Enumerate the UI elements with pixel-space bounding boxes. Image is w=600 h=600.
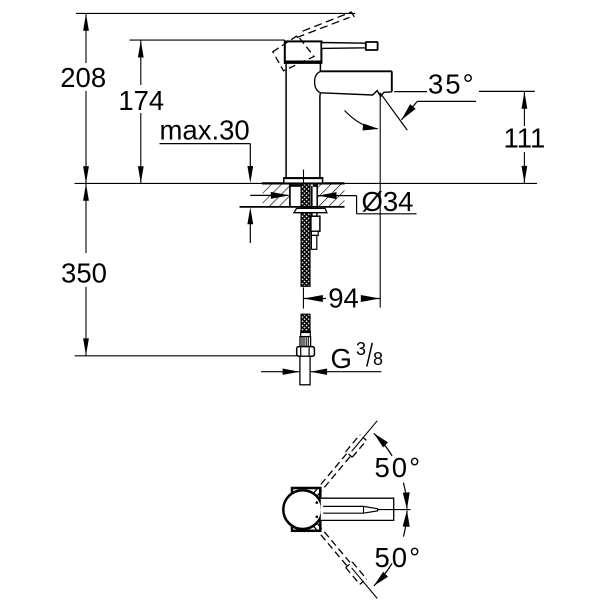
dimension 350 vertical line [83, 183, 89, 355]
hose length reference line (350 bottom) [75, 355, 297, 357]
svg-text:174: 174 [118, 85, 164, 116]
counter top surface line [75, 182, 538, 184]
plan view: dashed lever at 50 degrees (lower) [314, 523, 367, 584]
hose ferrule [301, 331, 311, 336]
raised lever (dashed) [297, 12, 356, 38]
raised handle position (dashed box) [273, 36, 314, 71]
body-spout intersection curve [315, 72, 321, 93]
dimension 174 vertical line [138, 40, 144, 183]
fixing block neck [311, 231, 318, 235]
plan view: 50 degree extension line (lower) [352, 568, 378, 599]
dimension 94 line with outward arrows [304, 295, 380, 302]
svg-text:3: 3 [356, 339, 366, 359]
cartridge box (handle base) [284, 41, 322, 63]
extension line: total-height reference (208 top) [76, 12, 355, 14]
mounting washer/nut under deck [294, 208, 327, 212]
stub tube upper left wall [311, 186, 313, 216]
plan view: cartridge box outline [292, 488, 320, 531]
faucet centre line [303, 170, 305, 184]
svg-text:50°: 50° [375, 542, 423, 573]
counter deck hatching right of hole [318, 184, 345, 206]
svg-text:35°: 35° [428, 69, 476, 100]
dimension text G 3/8 [331, 339, 384, 374]
plan view: 50 degree extension line (upper) [352, 421, 378, 452]
svg-text:max.30: max.30 [160, 115, 250, 146]
faucet body right edge upper [319, 63, 321, 71]
counter deck section bottom edge [240, 206, 345, 208]
plan view: lever axis line [378, 509, 411, 511]
dimension 208 vertical line [83, 13, 89, 183]
plan view: lever envelope [321, 498, 394, 520]
plan view: 50 degree arc (lower) [374, 510, 410, 586]
lever knob [366, 42, 378, 50]
94 dimension extension line (outlet axis) [379, 93, 381, 308]
faucet body right edge lower [319, 93, 322, 178]
base flange [283, 178, 323, 183]
threaded shank / braided hose upper segment [301, 184, 310, 286]
mounting hole left wall [289, 183, 291, 207]
faucet shank shoulder (left, in hole) [290, 185, 301, 187]
svg-text:G: G [331, 343, 352, 374]
hex union nut [297, 347, 315, 357]
stub tube upper right wall [316, 207, 318, 216]
fixing block on stud [311, 216, 320, 231]
dimension 111 vertical line [522, 91, 528, 183]
counter deck hatching left of hole [263, 184, 290, 206]
water stream 35deg line [380, 93, 407, 130]
spout top edge [320, 70, 392, 72]
35-degree reference line at outlet [394, 90, 535, 92]
plan view: faucet body circle [283, 490, 322, 529]
svg-text:Ø34: Ø34 [362, 186, 414, 217]
faucet shank shoulder (right, in hole) [313, 185, 317, 187]
svg-text:208: 208 [60, 62, 106, 93]
extension line: body-height reference (174 top) [130, 39, 285, 41]
svg-text:94: 94 [328, 283, 359, 314]
svg-text:111: 111 [503, 122, 545, 153]
plan view: dashed lever at 50 degrees (upper) [314, 435, 367, 496]
mounting hole right wall [316, 184, 318, 207]
35deg leader with arrow [402, 101, 477, 119]
plan view: lever shaft [323, 506, 377, 513]
G 3/8 dimension arrows [261, 369, 381, 375]
G3/8 threaded pipe end [300, 356, 310, 385]
braided hose lower segment [301, 314, 310, 331]
knurled connector [300, 337, 311, 347]
94 dimension extension line (faucet axis) [302, 287, 304, 308]
diameter 34 leader [357, 196, 417, 214]
counter deck section top edge (thick) [262, 182, 345, 184]
plan view: circle edge dots [316, 501, 319, 504]
stream swivel arc arrow [345, 111, 379, 131]
lever shaft [321, 43, 365, 49]
faucet body left edge [285, 63, 287, 178]
stud tube end [311, 235, 316, 249]
spout underside with aerator break mark [321, 91, 392, 97]
svg-text:50°: 50° [375, 452, 423, 483]
plan view: 50 degree arc (upper) [374, 433, 410, 509]
spout right (outlet) edge [391, 71, 393, 92]
svg-text:8: 8 [373, 349, 383, 369]
max.30 lower arrow below counter [247, 207, 253, 243]
svg-text:350: 350 [61, 258, 107, 289]
leader line for max.30 [160, 144, 254, 183]
diameter 34 arrows at hole [250, 192, 356, 199]
